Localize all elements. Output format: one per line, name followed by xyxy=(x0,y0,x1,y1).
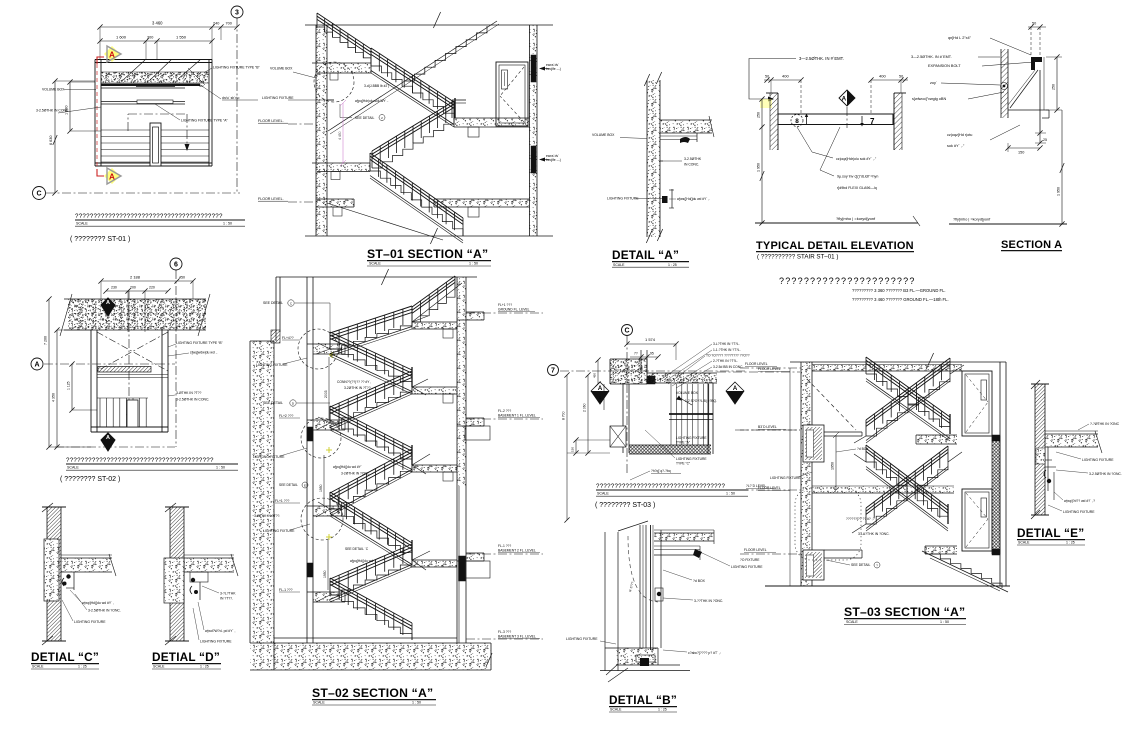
section ST-01 right wall xyxy=(530,25,538,236)
svg-text:LIGHTING FIXTURE: LIGHTING FIXTURE xyxy=(676,436,707,440)
svg-text:EXPANSION BOLT: EXPANSION BOLT xyxy=(928,64,961,68)
dim 400/50 right xyxy=(871,79,908,81)
dim 1950 sec03 xyxy=(835,435,837,490)
svg-text:E: E xyxy=(304,484,306,488)
detail E wall breaks xyxy=(1031,380,1040,389)
black corner xyxy=(647,376,655,384)
right floor slab level 1 xyxy=(466,311,484,313)
yellow cross 1 xyxy=(329,354,335,356)
svg-text:1950: 1950 xyxy=(323,570,327,578)
svg-text:ST–02 SECTION “A”: ST–02 SECTION “A” xyxy=(312,686,433,700)
svg-text:w]ws(]Hd(]du wd #Y´ ,.: w]ws(]Hd(]du wd #Y´ ,. xyxy=(677,197,710,201)
svg-text:A: A xyxy=(109,173,115,182)
desc flight L3-R4 xyxy=(330,509,412,560)
svg-text:w|wd?W?d- pd #Y´ ,: w|wd?W?d- pd #Y´ , xyxy=(205,629,236,633)
svg-text:B3´D LEVEL: B3´D LEVEL xyxy=(758,425,777,429)
lower-right landing 03 xyxy=(925,546,957,554)
plan ST-02 hatched landing edge xyxy=(98,367,151,373)
svg-text:3 460: 3 460 xyxy=(152,21,163,26)
left landing slab 2 xyxy=(313,420,343,430)
detail C wall hatch xyxy=(47,507,61,641)
svg-text:SCALE: SCALE xyxy=(1018,541,1030,545)
svg-text:FL+4??: FL+4?? xyxy=(282,336,294,340)
desc flight L4 to footing xyxy=(330,595,412,640)
svg-text:SCALE: SCALE xyxy=(67,466,79,470)
svg-text:6: 6 xyxy=(174,262,178,269)
dim 1950 a xyxy=(323,455,325,505)
top flight to cut xyxy=(412,291,455,322)
svg-text:C: C xyxy=(36,191,41,198)
newel R2 xyxy=(411,367,413,387)
dim 50 top xyxy=(1028,26,1046,28)
svg-text:2003: 2003 xyxy=(324,390,328,398)
dim 50/400 left xyxy=(764,79,801,81)
svg-text:1 : 25: 1 : 25 xyxy=(200,665,209,669)
wall opening box 1 xyxy=(803,425,824,462)
svg-text:FL-3 ???: FL-3 ??? xyxy=(498,630,511,634)
left dim 8,700 xyxy=(566,375,568,520)
plan ST-01 handrail lower xyxy=(101,101,185,103)
svg-text:r]d9bd FLEXI GLA96—lq: r]d9bd FLEXI GLA96—lq xyxy=(837,186,877,190)
section ST-01 top slab line xyxy=(305,24,553,26)
svg-text:ST–01 SECTION “A”: ST–01 SECTION “A” xyxy=(367,247,488,261)
plan ST-01 walk line with arrow xyxy=(127,114,129,131)
svg-text:?d BOX: ?d BOX xyxy=(693,579,706,583)
svg-text:3-L?THK IN ?T?L.: 3-L?THK IN ?T?L. xyxy=(713,342,740,346)
detail A ceiling lines xyxy=(660,135,697,137)
left dim 7,200 xyxy=(48,299,50,447)
svg-text:1950: 1950 xyxy=(319,484,323,492)
grid line 6 vertical xyxy=(175,270,177,447)
svg-text:1 : 25: 1 : 25 xyxy=(78,665,87,669)
svg-text:DETAIL “A”: DETAIL “A” xyxy=(612,248,679,262)
svg-text:??????????????????????: ?????????????????????? xyxy=(779,276,916,286)
svg-text:?O FIXTURE: ?O FIXTURE xyxy=(740,558,760,562)
section marker A top xyxy=(104,46,120,62)
svg-text:1 550: 1 550 xyxy=(176,35,187,40)
stringer break tick top xyxy=(433,12,440,28)
grid circle C2 xyxy=(622,325,633,336)
section cut mark red top xyxy=(97,57,104,64)
detail A cove lighting blob xyxy=(680,137,690,143)
right wall lower xyxy=(458,486,460,643)
svg-text:??????????????????????????????: ??????????????????????????????????? xyxy=(596,483,726,490)
svg-text:LIGHTING FIXTURE TYPE “B”: LIGHTING FIXTURE TYPE “B” xyxy=(213,66,260,70)
detail B outer wall lines xyxy=(604,532,606,671)
svg-text:1-1.?THK IN ?T?L.: 1-1.?THK IN ?T?L. xyxy=(713,348,741,352)
svg-text:bvojlfe ---): bvojlfe ---) xyxy=(546,158,561,162)
plan ST-03 treads xyxy=(670,384,672,445)
svg-text:150: 150 xyxy=(571,447,575,452)
newel 03 mid xyxy=(947,504,949,524)
bolt circle xyxy=(1001,83,1008,90)
svg-text:IN ?T??.: IN ?T??. xyxy=(220,597,233,601)
lower floor slab left xyxy=(316,199,354,207)
stair 03 upper X far flight xyxy=(866,374,950,436)
level dashdot mid xyxy=(740,429,800,431)
dim 250 left xyxy=(761,99,763,127)
shelf lines xyxy=(1008,109,1049,111)
svg-text:4 450: 4 450 xyxy=(338,131,342,140)
detail E bracket xyxy=(1047,447,1049,491)
svg-text:??????]?? ?? #? ,?: ??????]?? ?? #? ,? xyxy=(846,517,875,521)
stair 03 mid X near flight xyxy=(866,462,948,524)
dim 2003 xyxy=(328,357,330,420)
svg-text:2-?THK IN ?T?L.: 2-?THK IN ?T?L. xyxy=(713,359,738,363)
newel R4 xyxy=(411,540,413,560)
svg-text:SCALE: SCALE xyxy=(153,665,165,669)
svg-text:bvojlfe ---): bvojlfe ---) xyxy=(546,67,561,71)
detail B ceiling box xyxy=(654,545,700,547)
dim line 1,600 / 300 / 1,550 xyxy=(100,40,212,42)
svg-text:450: 450 xyxy=(593,373,597,378)
plan ST-01 outer walls xyxy=(95,59,212,61)
svg-text:??????????????????????????????: ???????????????????????????????????????? xyxy=(75,213,223,220)
svg-text:3-ØTHK IN ?T??: 3-ØTHK IN ?T?? xyxy=(176,391,202,395)
detail B pedestal xyxy=(636,655,655,662)
stringer break tick bottom xyxy=(430,228,437,244)
svg-text:LIGHTING FIXTURE: LIGHTING FIXTURE xyxy=(74,620,106,624)
svg-text:1 : 50: 1 : 50 xyxy=(216,466,225,470)
svg-text:?fly[mho | =koryd[yonf: ?fly[mho | =koryd[yonf xyxy=(953,218,991,222)
grid circle A xyxy=(31,358,43,370)
detail B dashed arc xyxy=(628,536,658,602)
svg-text:LIGHTING FIXTURE: LIGHTING FIXTURE xyxy=(262,96,294,100)
svg-text:4 350: 4 350 xyxy=(52,393,56,402)
svg-text:LIGHTING FIXTURE TYPE “B”: LIGHTING FIXTURE TYPE “B” xyxy=(176,341,223,345)
section marker A bottom xyxy=(104,168,120,184)
marker diamond A bottom xyxy=(101,433,115,451)
right floor slab level 3 xyxy=(466,552,484,554)
svg-text:3-2.5ØTHK IN CONC.: 3-2.5ØTHK IN CONC. xyxy=(176,398,209,402)
svg-text:SEE DETAIL ´C: SEE DETAIL ´C xyxy=(345,547,369,551)
dim 150 xyxy=(1008,147,1040,149)
detail C wall breaks xyxy=(42,503,53,512)
plan ST-01 landing slab stipple band xyxy=(101,72,209,83)
svg-text:FL-2 ???: FL-2 ??? xyxy=(498,409,511,413)
svg-text:A: A xyxy=(733,386,738,392)
svg-text:LIGHTING FIXTURE TYPE “A”: LIGHTING FIXTURE TYPE “A” xyxy=(181,119,228,123)
svg-text:FL-1 ???: FL-1 ??? xyxy=(498,544,511,548)
marker diamond A top xyxy=(101,298,115,316)
svg-text:700: 700 xyxy=(226,22,232,26)
svg-text:BASEMENT 2 FL. LEVEL: BASEMENT 2 FL. LEVEL xyxy=(498,549,536,553)
left landing slab 4 xyxy=(313,592,343,602)
svg-text:?d BOX: ?d BOX xyxy=(857,447,869,451)
detail D wall breaks xyxy=(165,503,176,512)
right wall stipple xyxy=(457,277,466,486)
section ST-01 bottom slab line xyxy=(305,235,553,237)
newel R3 xyxy=(411,445,413,465)
svg-text:50: 50 xyxy=(765,75,769,79)
section ST-03 bottom line xyxy=(765,585,1010,587)
svg-text:300: 300 xyxy=(147,36,153,40)
lower-left landing 03 xyxy=(824,549,862,551)
dim 1950 left xyxy=(761,127,763,223)
desc flight L2-R3 xyxy=(330,423,412,465)
plan ST-01 flight diagonals xyxy=(122,60,145,81)
svg-text:LIGHTING FIXTURE: LIGHTING FIXTURE xyxy=(770,476,801,480)
svg-text:A: A xyxy=(34,362,39,369)
mid slab 03 xyxy=(812,486,954,493)
svg-text:( ?????????? STAIR ST–01: ( ?????????? STAIR ST–01 ) xyxy=(757,254,838,261)
svg-text:qn]Hd L 2”x4”: qn]Hd L 2”x4” xyxy=(948,36,972,40)
stair 03 mid X far flight xyxy=(866,462,948,524)
svg-text:SCALE: SCALE xyxy=(76,222,88,226)
svg-text:FL+1 ???: FL+1 ??? xyxy=(275,499,290,503)
svg-text:FL+2 ???: FL+2 ??? xyxy=(279,414,294,418)
detail A lighting fixture xyxy=(662,196,668,203)
svg-text:95: 95 xyxy=(650,352,654,356)
svg-text:1 950: 1 950 xyxy=(757,163,761,172)
grid circle 6 xyxy=(170,258,182,270)
svg-text:1950: 1950 xyxy=(831,462,835,470)
detail circle dashed xyxy=(314,62,354,102)
svg-text:240: 240 xyxy=(213,22,219,26)
svg-text:FL-1 ???: FL-1 ??? xyxy=(279,588,293,592)
svg-text:sok #Y´ ,.”: sok #Y´ ,.” xyxy=(947,144,965,148)
svg-text:????????? 3 460 ??????? GROU: ????????? 3 460 ??????? GROUND FL.—18th … xyxy=(852,297,949,302)
svg-text:3-LA?THK IN ?ONC.: 3-LA?THK IN ?ONC. xyxy=(858,532,890,536)
beam xyxy=(778,114,893,125)
svg-text:C: C xyxy=(624,328,629,335)
svg-text:SCALE: SCALE xyxy=(369,262,381,266)
svg-text:IN CONC.: IN CONC. xyxy=(684,163,699,167)
svg-text:SEE DETAIL: SEE DETAIL xyxy=(279,483,298,487)
svg-text:CONN??(??)?? ?? #Y ,: CONN??(??)?? ?? #Y , xyxy=(337,380,371,384)
flight descending bottom xyxy=(370,171,463,236)
left dim 1,680 xyxy=(69,82,71,131)
svg-text:( ???????? ST-02 ): ( ???????? ST-02 ) xyxy=(60,476,120,483)
grid line 3 vertical xyxy=(236,18,238,193)
svg-text:LIGHTING FIXTURE: LIGHTING FIXTURE xyxy=(676,457,707,461)
svg-text:7: 7 xyxy=(870,117,875,126)
bottom dashdot xyxy=(55,446,175,448)
dim 230/200/220 xyxy=(106,290,168,292)
dim 2,188 / 450 xyxy=(101,280,193,282)
left dim 150 xyxy=(575,440,577,453)
svg-text:7?: 7? xyxy=(634,352,638,356)
marker diamond A xyxy=(839,90,855,106)
svg-text:VOLUME BOX: VOLUME BOX xyxy=(592,133,615,137)
svg-text:SEE DETAIL: SEE DETAIL xyxy=(851,563,870,567)
detail C fittings xyxy=(66,574,70,578)
svg-text:250: 250 xyxy=(757,112,761,118)
section A wall hatch xyxy=(1001,49,1008,118)
angle bracket xyxy=(1031,57,1042,70)
svg-text:SEE DETAIL: SEE DETAIL xyxy=(263,301,283,305)
svg-text:230: 230 xyxy=(111,286,117,290)
svg-text:BASEMENT 1 FL. LEVEL: BASEMENT 1 FL. LEVEL xyxy=(498,414,536,418)
svg-text:SEE DETAIL: SEE DETAIL xyxy=(263,401,283,405)
svg-text:3-2ØTHK IN ?ONC.: 3-2ØTHK IN ?ONC. xyxy=(341,472,370,476)
plan ST-01 bold nosing line xyxy=(101,84,200,86)
svg-text:SCALE: SCALE xyxy=(313,701,325,705)
level dashdot mid2 xyxy=(740,489,801,491)
detail B wall assembly xyxy=(639,525,641,648)
grid circle 3 xyxy=(231,6,243,18)
double arrow xyxy=(680,398,692,405)
dashed diagonal upper left xyxy=(807,379,856,430)
svg-text:FLOOR LEVEL.: FLOOR LEVEL. xyxy=(258,119,284,123)
long stringer bottom xyxy=(327,203,443,240)
right half landing 1 xyxy=(412,322,457,329)
dim 1950 b xyxy=(327,540,329,590)
left dim 2,060 xyxy=(587,375,589,453)
left dim 4,350 xyxy=(56,330,58,447)
plan ST-03 concrete block xyxy=(610,359,647,384)
svg-text:1 : 25: 1 : 25 xyxy=(1066,541,1075,545)
svg-text:BASEMENT 3 FL. LEVEL: BASEMENT 3 FL. LEVEL xyxy=(498,635,536,639)
svg-text:DETIAL “B”: DETIAL “B” xyxy=(609,693,677,707)
newel 03 upper xyxy=(949,414,951,434)
svg-text:200: 200 xyxy=(130,286,136,290)
dim 1,574 xyxy=(627,343,676,345)
floor level dashdot top xyxy=(740,367,801,369)
svg-text:LIGHTING FIXTURE: LIGHTING FIXTURE xyxy=(607,197,639,201)
svg-text:DETIAL “E”: DETIAL “E” xyxy=(1017,526,1084,540)
door elevation xyxy=(496,62,528,126)
circle 8 and arrow up xyxy=(791,115,803,127)
stair 03 upper X near flight xyxy=(866,374,950,434)
svg-text:400: 400 xyxy=(782,74,789,79)
top break tick xyxy=(381,269,388,285)
svg-text:1 : 50: 1 : 50 xyxy=(940,620,949,624)
svg-text:250: 250 xyxy=(1052,84,1056,90)
svg-text:LIGHTING FIXTURE: LIGHTING FIXTURE xyxy=(263,529,295,533)
svg-text:?h?q]´q?-?bq: ?h?q]´q?-?bq xyxy=(651,469,671,473)
plan ST-02 stair box walls xyxy=(90,330,92,432)
flight ascending from lower landing xyxy=(372,118,454,168)
svg-text:50: 50 xyxy=(899,75,903,79)
right half landing 3 xyxy=(412,465,457,472)
detail B bottom diagonal xyxy=(608,668,628,682)
svg-text:VOLUME BOX: VOLUME BOX xyxy=(42,88,65,92)
left dim 1,4xx xyxy=(603,384,605,410)
left landing slab 1 xyxy=(313,344,343,354)
svg-text:A: A xyxy=(109,51,115,60)
flight descending to mid landing xyxy=(371,66,454,120)
svg-text:w|wp]?d?? wd #?´ ,?: w|wp]?d?? wd #?´ ,? xyxy=(1064,499,1095,503)
mid-left landing 03 xyxy=(824,431,862,433)
svg-text:SCALE: SCALE xyxy=(597,492,609,496)
svg-text:FLOOR LEVEL: FLOOR LEVEL xyxy=(745,362,768,366)
top break tick 03 xyxy=(926,353,933,369)
asc flight L1-R1 xyxy=(330,322,412,349)
right floor level 4 xyxy=(466,638,543,640)
detail E slab xyxy=(1045,434,1098,447)
upper-left landing slab xyxy=(317,63,371,73)
svg-text:FLOOR LEVEL.: FLOOR LEVEL. xyxy=(258,197,284,201)
grid line C2 vertical xyxy=(626,336,628,475)
svg-text:LIGHTING FIXTURE: LIGHTING FIXTURE xyxy=(731,565,763,569)
door frame mark upper xyxy=(531,55,536,82)
detail D stipple box xyxy=(164,558,184,603)
svg-text:w|wp]Hd(]du wd #Y´ ,: w|wp]Hd(]du wd #Y´ , xyxy=(82,601,114,605)
svg-text:1-2 S?O??L B| =?BQ.: 1-2 S?O??L B| =?BQ. xyxy=(685,399,717,403)
detail B bottom sill xyxy=(616,648,658,665)
marker diamond A right xyxy=(726,382,744,404)
svg-text:1 : 50: 1 : 50 xyxy=(412,701,421,705)
svg-text:LIGHTING FIXTURE: LIGHTING FIXTURE xyxy=(566,637,598,641)
lower floor slab right xyxy=(434,199,530,207)
grid line 7 horizontal xyxy=(560,370,745,372)
asc flight L2-R2 xyxy=(330,387,412,423)
left dim 6,630 xyxy=(54,81,56,193)
vertical member xyxy=(1039,70,1041,133)
plan ST-02 dashed cross xyxy=(97,332,168,371)
plan ST-02 door xyxy=(127,400,138,427)
svg-text:7 200: 7 200 xyxy=(44,336,48,345)
svg-text:3-d(J-BBB lb #J´): 3-d(J-BBB lb #J´) xyxy=(364,84,389,88)
svg-text:3-2.5d BB IN CONC.: 3-2.5d BB IN CONC. xyxy=(713,365,743,369)
svg-text:SCALE: SCALE xyxy=(846,620,858,624)
svg-text:?L?´D LEVEL: ?L?´D LEVEL xyxy=(746,484,766,488)
svg-text:8: 8 xyxy=(795,118,799,125)
svg-text:1 600: 1 600 xyxy=(116,35,127,40)
svg-text:dn/u´ sb´rto: dn/u´ sb´rto xyxy=(222,96,239,100)
detail C slab xyxy=(61,558,112,572)
wall opening box 2 xyxy=(803,550,824,580)
svg-text:9µ.soy´lnv c]()”dLlclf´=hyn: 9µ.soy´lnv c]()”dLlclf´=hyn xyxy=(837,175,878,179)
svg-text:GROUND FL. LEVEL: GROUND FL. LEVEL xyxy=(498,308,530,312)
detail D wall hatch xyxy=(170,507,184,641)
grid circle 7 xyxy=(548,365,559,376)
svg-text:A: A xyxy=(842,95,847,102)
detail B top diagonal break xyxy=(618,521,648,531)
svg-text:SCALE: SCALE xyxy=(613,263,625,267)
right wall hatch xyxy=(894,93,902,150)
svg-text:1 : 50: 1 : 50 xyxy=(726,492,735,496)
svg-text:2 060: 2 060 xyxy=(583,403,587,412)
left dim 1,125 xyxy=(71,364,73,410)
upper thin wall xyxy=(275,277,277,341)
top slab 03 xyxy=(812,365,962,372)
strut diagonal xyxy=(1010,70,1038,108)
detail A wall break bottom xyxy=(646,231,651,243)
left wall 03 xyxy=(801,362,812,586)
yellow cross 3 xyxy=(326,536,332,538)
svg-text:LIGHTING FIXTURE: LIGHTING FIXTURE xyxy=(1082,458,1114,462)
left mega wall stipple xyxy=(250,341,274,643)
mid-right landing 03 xyxy=(916,435,957,444)
svg-text:3-?L?THK: 3-?L?THK xyxy=(220,592,236,596)
section ST-01 left wall xyxy=(316,25,327,236)
svg-text:c?abc?]???? p? #T´ ,:: c?abc?]???? p? #T´ ,: xyxy=(688,651,721,655)
asc flight L3-R3 xyxy=(330,465,412,509)
right floor slab level 2 xyxy=(466,417,484,419)
plan ST-02 top slab band xyxy=(68,299,206,330)
svg-text:LIGHTING FIXTURE: LIGHTING FIXTURE xyxy=(253,455,285,459)
plan ST-03 slab band right xyxy=(647,373,717,383)
detail A wall xyxy=(647,80,660,237)
typical elevation ground line xyxy=(755,222,918,224)
door frame mark lower xyxy=(531,146,536,173)
svg-text:SCALE: SCALE xyxy=(610,708,622,712)
detail E stipple patch xyxy=(1036,448,1045,464)
svg-text:3-2.5ØTHK: 3-2.5ØTHK xyxy=(684,157,702,161)
svg-text:SEE DETAIL: SEE DETAIL xyxy=(355,116,374,120)
detail circle 1 xyxy=(298,329,338,369)
dim 1950 right xyxy=(1061,110,1063,224)
bottom flight 03 xyxy=(930,554,1002,588)
grid line C horizontal xyxy=(46,192,240,194)
svg-text:1 : 50: 1 : 50 xyxy=(223,222,232,226)
svg-text:A: A xyxy=(106,435,110,441)
svg-text:3-??THK IN ?ONC.: 3-??THK IN ?ONC. xyxy=(694,599,723,603)
plan ST-01 handrail upper xyxy=(101,87,185,89)
long stringer flight ascending xyxy=(328,21,497,131)
